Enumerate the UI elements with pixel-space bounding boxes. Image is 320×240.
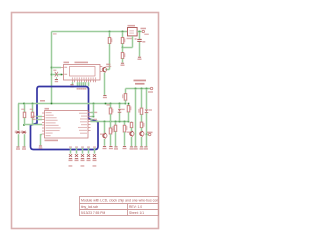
svg-text:5/13/23 7:55 PM: 5/13/23 7:55 PM — [81, 211, 105, 215]
svg-text:REV: 1.0: REV: 1.0 — [129, 205, 142, 209]
svg-text:Module with LCD, clock chip an: Module with LCD, clock chip and one-wire… — [81, 199, 158, 203]
svg-text:Sheet: 1/1: Sheet: 1/1 — [129, 211, 144, 215]
svg-text:tiny_lcd.sch: tiny_lcd.sch — [81, 205, 98, 209]
